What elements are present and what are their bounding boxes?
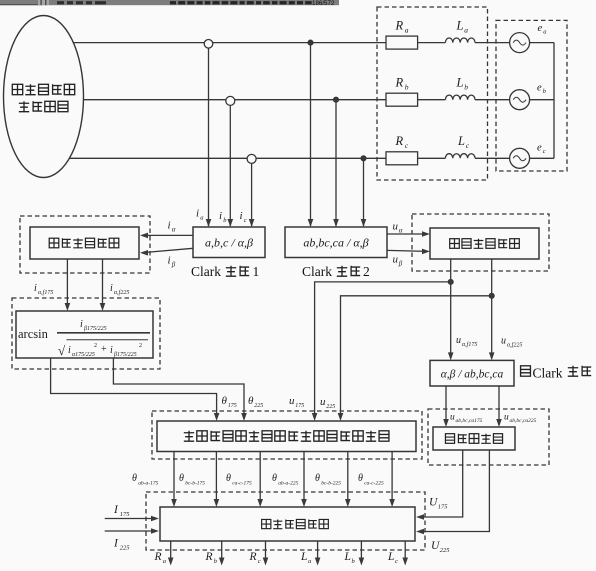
wire current-sep out f175 [66,259,68,308]
svg-text:a: a [543,29,546,36]
svg-text:b: b [214,558,218,565]
wire resistor Rb to inductor Lb [418,99,446,101]
label U225 [431,540,450,554]
wire rms out U175 [419,450,463,517]
svg-text:b: b [352,558,356,565]
svg-text:ab,bc,ca225: ab,bc,ca225 [510,418,537,424]
svg-text:2: 2 [139,343,142,349]
labels theta row [132,473,159,487]
svg-text:θ: θ [315,473,320,484]
svg-text:175: 175 [120,511,131,518]
wire resistor Rc to inductor Lc [418,157,446,159]
svg-text:1: 1 [253,264,260,279]
svg-text:c: c [395,558,398,565]
svg-text:a: a [464,26,468,35]
svg-text:L: L [387,551,394,563]
wire ialpha Clark1 to current-sep [143,234,193,236]
label ec [537,143,546,156]
header gray bar [0,0,339,7]
wire impedance out Rc [265,541,267,562]
wire I225 input [105,530,156,532]
label i-alpha-f175 [34,283,53,296]
svg-text:θ: θ [248,395,254,407]
wire ubeta Clark2 to voltage-sep [387,250,427,251]
svg-text:ca-c-225: ca-c-225 [364,481,384,487]
generator label (hanzi) [12,84,74,111]
svg-text:R: R [395,76,404,90]
svg-text:θ: θ [179,473,184,484]
Clark1 caption [191,264,221,279]
label theta225 [248,395,263,409]
svg-text:L: L [456,76,464,90]
svg-text:ab,bc,ca / α,β: ab,bc,ca / α,β [303,236,368,250]
svg-text:ab-a-175: ab-a-175 [138,481,158,487]
label ic [240,210,247,224]
node uc tap [361,156,366,161]
svg-text:i: i [168,255,171,267]
label impedance calc (hanzi) [262,519,329,528]
wire CT ib down [229,105,231,226]
dashed box voltage separation [412,214,549,271]
wire CT ia down [208,48,210,226]
svg-text:c: c [466,141,470,150]
label i-alpha-f225 [110,283,129,296]
svg-text:a: a [308,558,311,565]
wire I175 input [105,518,156,520]
svg-text:Clark: Clark [302,264,332,279]
svg-text:225: 225 [326,404,335,410]
wire voltage-sep out ualpha-f225 [491,259,493,357]
label U175 [429,497,448,511]
svg-text:u: u [456,335,461,346]
CT circle ia [204,40,213,49]
inverse Clark caption [521,366,531,376]
label Lc [457,134,470,150]
node ualpha-f175 branch [448,280,453,285]
svg-text:α,β / ab,bc,ca: α,β / ab,bc,ca [441,369,504,381]
svg-text:L: L [344,551,351,563]
svg-text:175: 175 [295,403,304,409]
wire impedance out La [317,541,319,562]
node ua tap [308,40,313,45]
svg-text:+: + [101,344,107,355]
label I175 [113,504,130,518]
svg-text:Clark: Clark [191,264,221,279]
svg-text:β: β [171,261,176,269]
label ea [538,23,547,36]
wire arcsin out theta175 [51,358,217,418]
source eb [510,90,530,110]
node ualpha-f225 branch [489,293,494,298]
wire inductor La to source ea [475,42,510,44]
inductor Lc [445,154,475,159]
label u-alpha-f175 [456,335,477,348]
svg-text:186/572: 186/572 [312,0,335,7]
dashed box current separation [20,216,150,273]
label ib [219,210,227,224]
bottom output labels [154,551,167,565]
svg-text:c: c [258,558,261,565]
svg-text:L: L [456,19,464,33]
svg-text:Clark: Clark [533,366,563,381]
svg-text:L: L [300,551,307,563]
label Rc [395,134,409,150]
svg-text:α: α [172,226,176,234]
wire u225 branch [341,296,492,418]
wire ibeta Clark1 to current-sep [143,248,193,252]
svg-text:U: U [431,540,440,552]
wire uc tap down [363,158,365,226]
dashed box arcsin [12,298,160,369]
block current separation [30,227,139,259]
wire ua tap down [310,43,312,226]
block Clark2 [285,227,387,258]
label i-alpha [168,220,176,234]
svg-text:c: c [405,141,409,150]
svg-text:θ: θ [226,473,231,484]
wire angle out 5 [347,452,349,505]
dashed box angle calc [152,411,422,459]
svg-text:u: u [393,254,399,266]
svg-text:arcsin: arcsin [18,327,49,341]
block inverse Clark [430,360,514,386]
svg-text:i: i [34,283,37,294]
svg-text:u: u [504,413,509,423]
wire impedance out Ra [170,541,172,562]
svg-text:U: U [429,497,438,509]
wire rms out U225 [419,450,489,532]
wire angle out 3 [259,452,261,505]
svg-text:e: e [538,23,543,34]
wire angle out 2 [215,452,217,505]
svg-text:ab-a-225: ab-a-225 [278,481,298,487]
svg-text:L: L [457,134,465,148]
label u-alpha-f225 [501,336,522,349]
svg-text:I: I [113,538,119,550]
svg-text:225: 225 [254,403,263,409]
svg-text:R: R [395,19,404,33]
svg-text:β: β [398,260,403,268]
wire phase c [69,157,386,159]
block arcsin [16,311,153,358]
label u-abbcca175 [450,413,483,425]
svg-text:u: u [393,221,399,233]
node ub tap [334,97,339,102]
svg-text:β175/225: β175/225 [113,352,137,358]
wire current-sep out f225 [102,259,104,308]
svg-text:u: u [289,395,295,407]
arrowheads [65,219,502,566]
block voltage separation [430,228,539,259]
svg-text:225: 225 [440,547,451,554]
dashed box rms [428,409,549,465]
svg-text:b: b [223,217,227,224]
svg-text:R: R [205,551,213,563]
wire source ec to neutral [530,157,554,159]
label ia [196,208,204,222]
resistor Rb [386,93,418,106]
block angle calc [157,421,416,452]
svg-text:c: c [543,148,546,155]
source ea [510,33,530,53]
svg-text:I: I [113,504,119,516]
wire inductor Lc to source ec [475,157,510,159]
svg-text:b: b [405,83,409,92]
wire source ea to neutral [530,42,554,44]
CT circle ib [226,96,235,105]
label u175 [289,395,304,409]
svg-text:θ: θ [222,395,228,407]
svg-text:c: c [244,217,247,224]
label Lb [456,76,469,92]
generator ellipse [4,16,84,178]
svg-text:α175/225: α175/225 [72,352,95,358]
wire source eb to neutral [530,99,554,101]
svg-text:α,f175: α,f175 [38,289,53,296]
svg-text:225: 225 [120,545,131,552]
svg-text:i: i [110,345,113,356]
svg-text:b: b [543,88,547,95]
label u-abbcca225 [504,413,537,425]
label Rb [395,76,409,92]
block Clark1 [193,227,265,258]
wire invClark out uab175 [445,386,447,424]
svg-text:bc-b-225: bc-b-225 [321,481,341,487]
svg-text:a: a [200,215,203,222]
Clark2 caption [302,264,332,279]
svg-text:a: a [405,26,409,35]
wire inductor Lb to source eb [475,99,510,101]
label I225 [113,538,130,552]
label u225 [320,396,335,410]
svg-text:u: u [450,413,455,423]
svg-text:α: α [399,227,403,235]
svg-text:θ: θ [272,473,277,484]
svg-text:√: √ [58,343,66,358]
arcsin formula [18,319,142,358]
fraction bar arcsin [57,332,150,334]
block impedance calc [160,507,415,541]
wire resistor Ra to inductor La [418,42,446,44]
svg-text:θ: θ [358,473,363,484]
svg-text:u: u [320,396,326,408]
svg-text:R: R [154,551,162,563]
svg-text:θ: θ [132,473,137,484]
inductor Lb [445,95,475,100]
wire ualpha Clark2 to voltage-sep [387,233,427,235]
wire arcsin out theta225 [113,358,244,418]
svg-text:ab,bc,ca175: ab,bc,ca175 [456,418,483,424]
label angle calc (hanzi 16) [184,431,389,441]
svg-text:i: i [68,345,71,356]
sqrt overline arcsin [67,339,149,341]
label La [456,19,469,35]
svg-text:bc-b-175: bc-b-175 [185,481,205,487]
wire angle out 4 [303,452,305,505]
dashed box sources [496,20,567,171]
wire voltage-sep out ualpha-f175 [450,259,452,357]
wire impedance out Lc [404,541,406,562]
dashed box impedance calc [146,492,425,550]
resistor Ra [386,36,418,49]
svg-text:β175/225: β175/225 [83,326,107,332]
svg-text:i: i [80,319,83,330]
wire angle out 1 [173,452,175,505]
svg-text:i: i [196,208,199,220]
svg-text:R: R [249,551,257,563]
svg-text:i: i [240,210,243,222]
label eb [537,83,547,96]
svg-text:α,f225: α,f225 [114,289,129,296]
dashed box grid impedance RL [377,7,488,180]
wire neutral vertical [553,43,555,159]
CT circle ic [247,154,256,163]
svg-text:e: e [537,83,542,94]
wire angle out 6 [391,452,393,505]
svg-text:α,f175: α,f175 [462,341,477,348]
label u-beta [393,254,403,268]
svg-text:a: a [163,558,166,565]
svg-text:i: i [168,220,171,232]
label rms solve (hanzi) [445,434,502,444]
wire u175 branch [315,282,451,418]
source ec [510,148,530,168]
svg-text:α,f225: α,f225 [507,342,522,349]
svg-text:i: i [219,210,222,222]
label u-alpha [393,221,403,235]
wire phase b [83,99,386,101]
label voltage separation (hanzi) [450,239,520,249]
wire impedance out Lb [360,541,362,562]
svg-text:e: e [537,143,542,154]
svg-text:2: 2 [363,264,370,279]
wire phase a [73,42,386,44]
wire CT ic down [251,163,253,226]
label theta175 [222,395,237,409]
wire ub tap down [335,100,337,226]
inductor La [445,38,475,43]
label Ra [395,19,409,35]
svg-text:i: i [110,283,113,294]
label i-beta [168,255,176,269]
svg-text:u: u [501,336,506,347]
label current separation (hanzi) [49,238,119,248]
svg-text:2: 2 [94,343,97,349]
wire invClark out uab225 [498,386,500,424]
svg-text:ca-c-175: ca-c-175 [232,481,252,487]
svg-text:175: 175 [228,403,237,409]
svg-text:R: R [395,134,404,148]
block rms [433,427,515,450]
svg-text:175: 175 [438,504,449,511]
wire impedance out Rb [221,541,223,562]
resistor Rc [386,152,418,165]
svg-text:a,b,c / α,β: a,b,c / α,β [205,236,253,250]
svg-text:b: b [464,83,468,92]
